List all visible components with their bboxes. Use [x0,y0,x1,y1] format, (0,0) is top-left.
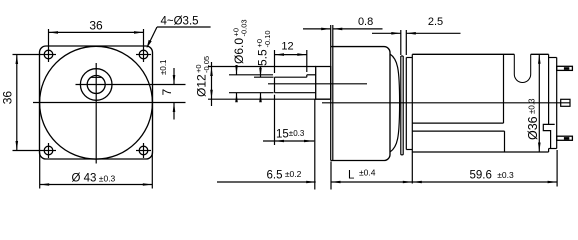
svg-text:L: L [348,170,355,182]
svg-text:±0.1: ±0.1 [159,59,168,75]
svg-text:-0.05: -0.05 [202,56,211,73]
motor front bell curve [390,54,400,152]
mounting hole top-right [139,50,148,59]
motor can body [411,54,413,152]
svg-text:36: 36 [89,19,103,33]
mounting hole top-left [44,50,53,59]
front view: gearbox mounting flange, square plate with rounded corners [40,46,153,159]
dimension 36 (top, hole spacing horizontal) [48,29,50,62]
svg-text:-0.03: -0.03 [239,19,248,36]
svg-text:59.6 ±0.3: 59.6 ±0.3 [470,169,515,181]
dimension Ø43 ±0.3 (bottom) [39,153,41,189]
svg-text:0.8: 0.8 [358,16,373,28]
motor end cap [549,57,557,59]
dimension 5.5 +0/-0.10 [254,76,274,78]
rear bearing boss [561,99,570,106]
mounting hole bottom-left [44,146,53,155]
leader 4~Ø3.5 (top right hole) [157,26,211,28]
dimension 2.5 (ring) [400,30,402,55]
shaft D-flat chord [91,76,102,78]
bottom dimension line: 6.5 / L / 59.6 [330,162,332,190]
svg-text:5.5: 5.5 [256,49,270,66]
dimension 12 (flat length) [274,50,276,73]
gearbox front face plate (0.8 lip) [330,47,332,161]
motor mounting ring [400,56,402,155]
shaft outline (Ø6 with flat) [275,76,307,78]
terminal tab bottom [557,136,573,140]
output shaft boss circle Ø12 [80,69,112,101]
dimension Ø12 +0/-0.05 [208,66,316,68]
horizontal centerline of flange [33,102,186,104]
gearbox face circle Ø43 [40,46,153,159]
mounting hole bottom-right [139,146,148,155]
label Ø6.0 +0/-0.03 [232,19,249,64]
shaft centerline (side view) [268,83,367,85]
terminal tab top [557,66,573,70]
svg-text:4~Ø3.5: 4~Ø3.5 [161,15,199,27]
svg-text:Ø36: Ø36 [526,116,540,140]
svg-text:Ø 43 ±0.3: Ø 43 ±0.3 [72,173,116,185]
gearbox body [331,47,390,161]
horizontal centerline of shaft [76,84,186,86]
dimension Ø6.0 +0/-0.03 [229,74,273,76]
label 5.5 +0/-0.10 [255,30,272,66]
svg-text:-0.10: -0.10 [263,30,272,47]
dimension 15±0.3 (shaft length) [274,95,276,145]
main centerline (gearbox+motor) [322,102,571,104]
dimension 0.8 (front plate lip) [330,25,332,47]
dimension 36 (left, hole spacing vertical) [13,54,42,56]
hole crosshair ticks [41,54,56,56]
label Ø12 +0/-0.05 [194,56,211,97]
output shaft circle Ø6 [87,76,105,94]
svg-text:36: 36 [1,91,15,105]
vent slot on can top [514,54,530,82]
dimension 7 ±0.1 (shaft offset) [173,68,175,85]
svg-text:±0.3: ±0.3 [528,98,537,114]
dimension Ø36 ±0.3 [538,54,540,152]
svg-text:Ø12: Ø12 [195,74,209,97]
svg-text:2.5: 2.5 [428,16,443,28]
motor can front lip [405,58,407,150]
svg-text:7: 7 [160,89,174,96]
vertical centerline of flange [95,63,97,164]
svg-text:Ø6.0: Ø6.0 [232,38,246,64]
magnet / inner lines [503,54,505,123]
brush notch bottom rear [543,124,554,148]
svg-text:±0.4: ±0.4 [359,168,376,178]
boss Ø12 [316,67,331,100]
svg-text:12: 12 [281,40,293,52]
